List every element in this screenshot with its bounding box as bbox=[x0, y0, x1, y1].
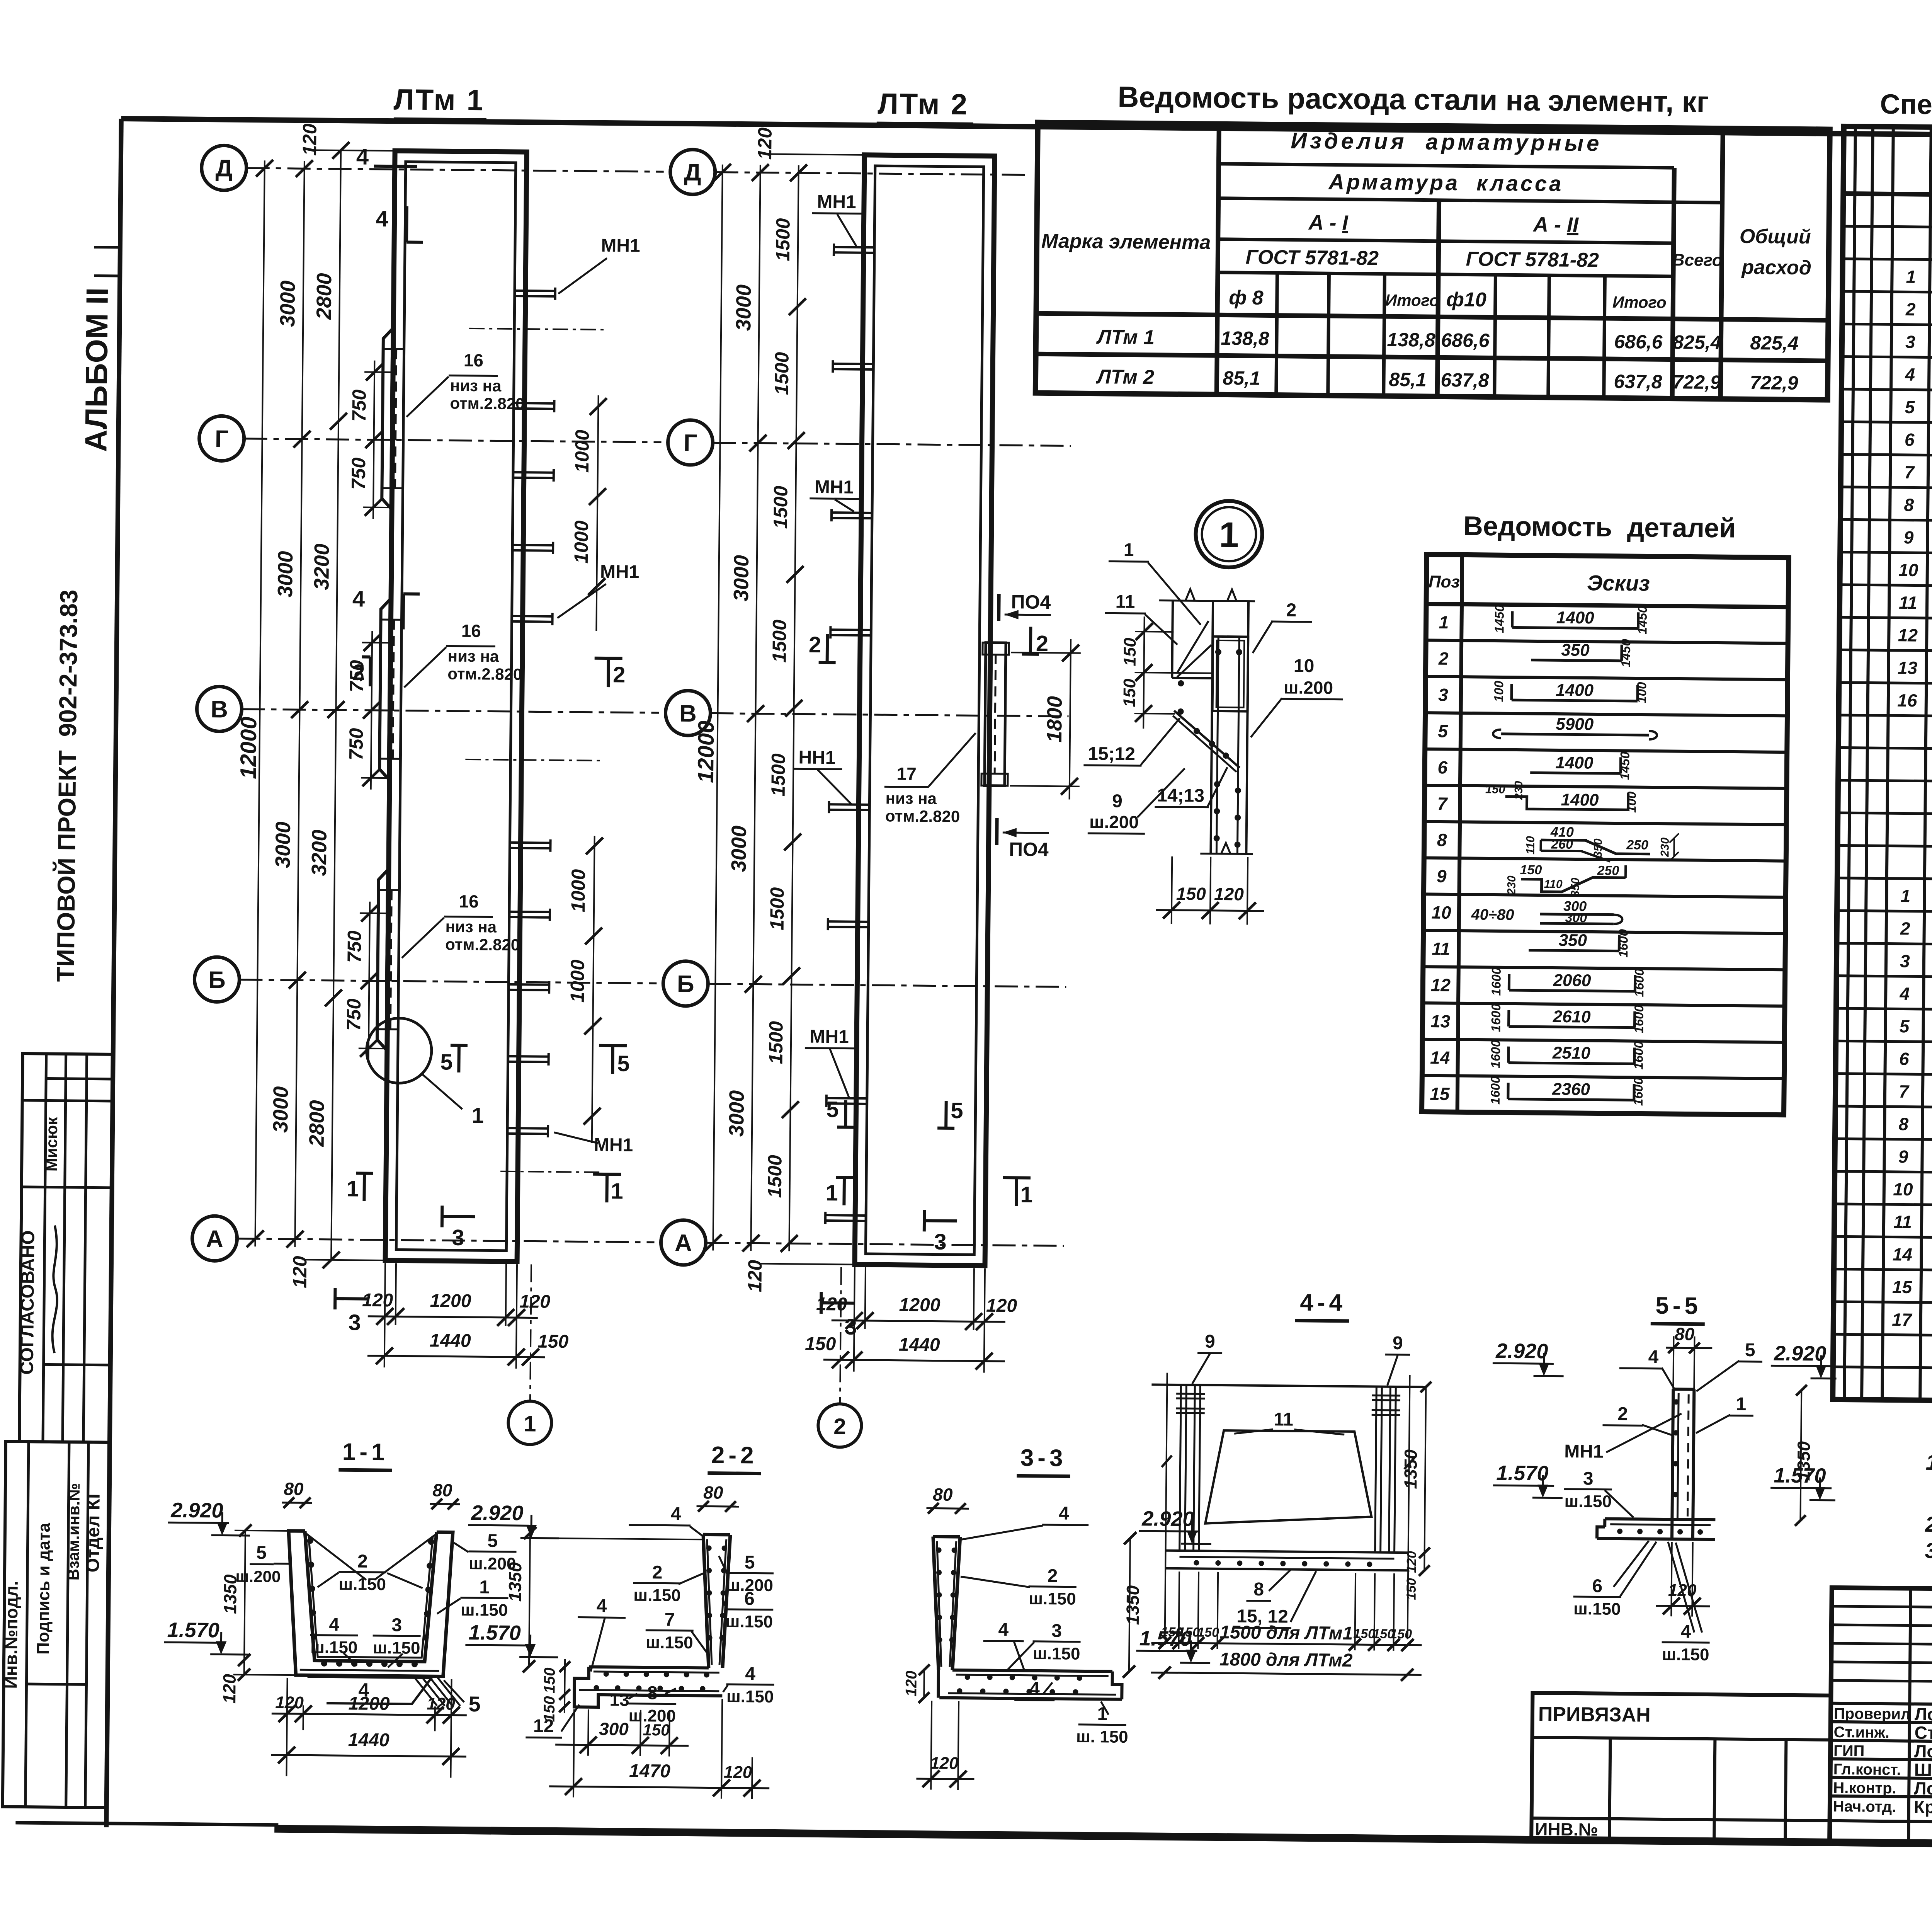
ЛТм2 bottom dimensions bbox=[854, 1267, 855, 1372]
svg-text:1500 для ЛТм1: 1500 для ЛТм1 bbox=[1219, 1622, 1353, 1644]
svg-text:низ на: низ на bbox=[445, 917, 497, 936]
svg-text:3000: 3000 bbox=[271, 821, 295, 868]
detail 1 wall lines bbox=[1172, 601, 1173, 678]
section 3-3 dims bbox=[923, 1670, 925, 1697]
svg-text:150: 150 bbox=[805, 1334, 836, 1355]
svg-text:Лоуцкер: Лоуцкер bbox=[1914, 1778, 1932, 1799]
svg-text:3200: 3200 bbox=[308, 829, 331, 876]
svg-text:85,1: 85,1 bbox=[1223, 367, 1260, 389]
svg-text:350: 350 bbox=[1561, 640, 1590, 660]
svg-text:85,1: 85,1 bbox=[1389, 369, 1427, 391]
svg-text:1600: 1600 bbox=[1632, 968, 1646, 997]
svg-text:3: 3 bbox=[1905, 332, 1915, 352]
svg-text:8: 8 bbox=[1253, 1579, 1264, 1600]
detail 1 bottom dimensions 150 120 bbox=[1172, 856, 1172, 924]
axis Г bbox=[199, 416, 244, 461]
section 3-3 bottom dim 120 bbox=[931, 1701, 932, 1790]
svg-text:ш.200: ш.200 bbox=[1284, 677, 1333, 698]
svg-text:2.920: 2.920 bbox=[1141, 1507, 1194, 1531]
svg-text:5: 5 bbox=[1438, 721, 1448, 741]
svg-text:А: А bbox=[675, 1230, 692, 1256]
svg-text:120: 120 bbox=[362, 1290, 393, 1311]
section 2-2 left rotated dims bbox=[565, 1659, 565, 1713]
ЛТм1 dimension chain 3000x4 bbox=[295, 161, 304, 1247]
svg-text:150: 150 bbox=[1390, 1627, 1412, 1641]
svg-text:Отдел КГ: Отдел КГ bbox=[83, 1488, 104, 1572]
svg-text:1. Защитный слой бетона - 20: 1. Защитный слой бетона - 20 мм. bbox=[1925, 1450, 1932, 1478]
svg-text:1450: 1450 bbox=[1617, 751, 1632, 780]
ЛТм1 body outline bbox=[385, 151, 527, 1262]
svg-text:Всего: Всего bbox=[1672, 250, 1723, 270]
steel consumption table grid bbox=[1036, 123, 1830, 400]
svg-text:Лоуцкер: Лоуцкер bbox=[1915, 1704, 1932, 1725]
svg-text:2060: 2060 bbox=[1553, 971, 1591, 990]
svg-text:1600: 1600 bbox=[1489, 967, 1503, 996]
title block privyazan box bbox=[1531, 1693, 1831, 1842]
svg-text:5: 5 bbox=[256, 1543, 267, 1563]
svg-text:1450: 1450 bbox=[1635, 606, 1650, 634]
svg-text:ЛТм 2: ЛТм 2 bbox=[878, 87, 969, 121]
detail 1 left 150 dimensions bbox=[1143, 616, 1145, 729]
svg-text:АЛЬБОМ II: АЛЬБОМ II bbox=[78, 287, 114, 452]
svg-text:5: 5 bbox=[1905, 397, 1915, 417]
svg-text:3: 3 bbox=[1900, 951, 1910, 971]
svg-text:11: 11 bbox=[1893, 1212, 1912, 1232]
svg-text:5: 5 bbox=[1900, 1016, 1910, 1036]
svg-text:отм.2.820: отм.2.820 bbox=[447, 664, 522, 683]
svg-text:Гл.конст.: Гл.конст. bbox=[1833, 1761, 1901, 1779]
svg-text:2360: 2360 bbox=[1552, 1080, 1590, 1099]
svg-text:1000: 1000 bbox=[570, 520, 592, 564]
svg-text:120: 120 bbox=[816, 1294, 847, 1315]
ЛТм2 body outline bbox=[855, 155, 995, 1266]
svg-text:низ на: низ на bbox=[448, 647, 500, 665]
svg-text:1200: 1200 bbox=[430, 1291, 472, 1311]
axis circle 1 bottom bbox=[530, 1264, 531, 1401]
svg-text:120: 120 bbox=[1404, 1551, 1419, 1573]
svg-text:Общий: Общий bbox=[1740, 225, 1811, 249]
svg-text:80: 80 bbox=[703, 1482, 723, 1502]
svg-text:Д: Д bbox=[215, 155, 233, 182]
svg-text:110: 110 bbox=[1524, 836, 1537, 855]
svg-text:А: А bbox=[206, 1226, 223, 1252]
svg-text:3000: 3000 bbox=[274, 551, 297, 598]
svg-text:120: 120 bbox=[744, 1260, 766, 1292]
svg-text:825,4: 825,4 bbox=[1673, 331, 1721, 353]
svg-text:120: 120 bbox=[299, 123, 321, 156]
svg-text:17: 17 bbox=[896, 764, 917, 784]
svg-text:ГОСТ 5781-82: ГОСТ 5781-82 bbox=[1245, 246, 1379, 269]
svg-text:150: 150 bbox=[643, 1721, 670, 1739]
ЛТм1 dimension chain 2800/3200 bbox=[331, 150, 341, 1260]
svg-text:НН1: НН1 bbox=[798, 747, 835, 768]
svg-text:5900: 5900 bbox=[1556, 715, 1594, 734]
svg-text:низ на: низ на bbox=[885, 789, 937, 807]
svg-text:Поз: Поз bbox=[1429, 572, 1460, 592]
svg-text:3000: 3000 bbox=[269, 1086, 293, 1133]
axis Б bbox=[663, 961, 708, 1006]
svg-text:1600: 1600 bbox=[1631, 1077, 1646, 1106]
svg-text:расход: расход bbox=[1741, 256, 1811, 279]
svg-text:2: 2 bbox=[652, 1562, 662, 1583]
svg-text:3: 3 bbox=[348, 1310, 361, 1335]
detail 1 closure pocket bbox=[1213, 637, 1248, 712]
svg-text:2610: 2610 bbox=[1553, 1007, 1591, 1027]
svg-text:150: 150 bbox=[1353, 1626, 1375, 1641]
ЛТм2 dimension chain 3000x4 bbox=[751, 165, 760, 1251]
svg-text:5: 5 bbox=[1745, 1340, 1755, 1360]
svg-text:ф 8: ф 8 bbox=[1229, 286, 1264, 309]
svg-text:11: 11 bbox=[1432, 938, 1450, 959]
svg-text:1500: 1500 bbox=[765, 1021, 787, 1064]
svg-text:120: 120 bbox=[275, 1693, 304, 1713]
ЛТм1 right side 1000 dimensions upper bbox=[596, 395, 598, 631]
svg-text:МН1: МН1 bbox=[594, 1135, 633, 1156]
svg-text:120: 120 bbox=[986, 1296, 1017, 1316]
svg-text:1200: 1200 bbox=[899, 1295, 941, 1316]
svg-text:5: 5 bbox=[745, 1552, 755, 1573]
svg-text:14: 14 bbox=[1893, 1244, 1913, 1264]
svg-text:5: 5 bbox=[617, 1051, 630, 1076]
detail 1 rebar dots bbox=[1178, 680, 1184, 686]
svg-text:12000: 12000 bbox=[693, 720, 719, 783]
svg-text:7: 7 bbox=[1899, 1081, 1910, 1102]
svg-text:2: 2 bbox=[1617, 1404, 1628, 1424]
svg-text:150: 150 bbox=[1485, 782, 1505, 796]
svg-text:ш.200: ш.200 bbox=[1089, 812, 1139, 832]
svg-text:8: 8 bbox=[1437, 830, 1447, 850]
svg-text:2: 2 bbox=[1286, 600, 1296, 620]
section 4-4 right rotated dims bbox=[1424, 1387, 1426, 1571]
svg-text:3-3: 3-3 bbox=[1020, 1444, 1067, 1471]
svg-text:5: 5 bbox=[951, 1098, 963, 1123]
svg-text:1350: 1350 bbox=[505, 1562, 525, 1602]
svg-text:4: 4 bbox=[998, 1619, 1009, 1640]
svg-text:722,9: 722,9 bbox=[1750, 372, 1798, 394]
svg-text:МН1: МН1 bbox=[815, 477, 854, 498]
section 3-3 floor bbox=[952, 1670, 1112, 1672]
svg-text:1500: 1500 bbox=[772, 218, 794, 261]
svg-text:ш.200: ш.200 bbox=[235, 1567, 281, 1586]
svg-text:4-4: 4-4 bbox=[1300, 1289, 1346, 1316]
svg-text:9: 9 bbox=[1205, 1331, 1215, 1352]
svg-text:ш.150: ш.150 bbox=[338, 1575, 386, 1594]
svg-text:902-2-373.83: 902-2-373.83 bbox=[54, 589, 83, 737]
svg-text:3: 3 bbox=[452, 1225, 464, 1250]
svg-text:100: 100 bbox=[1492, 681, 1506, 702]
svg-text:2.920: 2.920 bbox=[170, 1498, 223, 1522]
axis А bbox=[661, 1220, 706, 1265]
svg-text:120: 120 bbox=[427, 1694, 455, 1714]
svg-text:3: 3 bbox=[391, 1615, 402, 1635]
svg-text:3000: 3000 bbox=[727, 826, 751, 872]
svg-text:6: 6 bbox=[1437, 757, 1447, 777]
svg-text:7: 7 bbox=[1437, 793, 1448, 814]
approval stamp lower block bbox=[3, 1442, 110, 1808]
svg-text:300: 300 bbox=[599, 1719, 629, 1739]
svg-text:80: 80 bbox=[1675, 1324, 1695, 1344]
section 5-5 floor bbox=[1605, 1519, 1715, 1520]
svg-text:250: 250 bbox=[1597, 863, 1619, 878]
svg-text:150: 150 bbox=[541, 1696, 558, 1722]
title block centre column grid bbox=[1830, 1588, 1932, 1845]
svg-text:ш.150: ш.150 bbox=[1033, 1644, 1080, 1663]
svg-text:260: 260 bbox=[1551, 837, 1573, 852]
svg-text:Б: Б bbox=[677, 971, 694, 998]
section 3-3 wall bbox=[932, 1537, 940, 1670]
svg-text:4: 4 bbox=[329, 1614, 339, 1635]
svg-text:120: 120 bbox=[1668, 1581, 1697, 1600]
svg-text:6: 6 bbox=[1899, 1049, 1909, 1069]
svg-text:Б: Б bbox=[208, 967, 226, 993]
svg-text:2.920: 2.920 bbox=[1495, 1339, 1548, 1363]
svg-text:80: 80 bbox=[432, 1480, 452, 1500]
svg-text:А - II: А - II bbox=[1532, 213, 1579, 237]
svg-text:722,9: 722,9 bbox=[1672, 371, 1721, 393]
svg-text:1.570: 1.570 bbox=[167, 1618, 219, 1642]
svg-text:1500: 1500 bbox=[771, 352, 793, 395]
svg-text:5: 5 bbox=[440, 1049, 453, 1074]
axis А bbox=[192, 1216, 237, 1261]
svg-text:9: 9 bbox=[1898, 1146, 1908, 1166]
svg-text:120: 120 bbox=[724, 1763, 752, 1782]
svg-text:1000: 1000 bbox=[566, 959, 588, 1003]
detail circle 1 callout bbox=[1196, 501, 1262, 567]
svg-text:1.570: 1.570 bbox=[1774, 1464, 1826, 1487]
svg-text:750: 750 bbox=[345, 728, 367, 760]
section 2-2 floor bbox=[574, 1667, 723, 1708]
svg-text:Н.контр.: Н.контр. bbox=[1833, 1779, 1896, 1797]
svg-text:5: 5 bbox=[468, 1692, 481, 1716]
svg-text:250: 250 bbox=[1626, 838, 1648, 853]
svg-text:1: 1 bbox=[346, 1176, 359, 1201]
svg-text:1000: 1000 bbox=[571, 429, 593, 473]
svg-text:ш.150: ш.150 bbox=[310, 1638, 358, 1657]
svg-text:12: 12 bbox=[1431, 975, 1451, 995]
svg-text:150: 150 bbox=[1178, 1625, 1200, 1640]
svg-text:ш.150: ш.150 bbox=[1029, 1589, 1076, 1609]
svg-text:1440: 1440 bbox=[348, 1730, 390, 1750]
svg-text:10: 10 bbox=[1893, 1179, 1913, 1199]
svg-text:8: 8 bbox=[1904, 495, 1914, 515]
section 4-4 right wall bbox=[1375, 1387, 1377, 1553]
svg-text:16: 16 bbox=[464, 350, 484, 370]
svg-text:1-1: 1-1 bbox=[342, 1439, 389, 1466]
svg-text:1: 1 bbox=[1736, 1394, 1746, 1415]
svg-text:3000: 3000 bbox=[730, 555, 753, 602]
svg-text:686,6: 686,6 bbox=[1614, 331, 1663, 353]
svg-text:8: 8 bbox=[647, 1683, 658, 1703]
svg-text:СОГЛАСОВАНО: СОГЛАСОВАНО bbox=[17, 1230, 38, 1375]
svg-text:Нач.отд.: Нач.отд. bbox=[1833, 1798, 1896, 1815]
svg-text:1: 1 bbox=[1219, 515, 1239, 555]
svg-text:40÷80: 40÷80 bbox=[1471, 906, 1514, 923]
svg-text:1: 1 bbox=[1097, 1704, 1107, 1724]
svg-text:138,8: 138,8 bbox=[1387, 329, 1435, 351]
svg-text:3: 3 bbox=[1438, 684, 1448, 705]
svg-text:Изделия арматурные: Изделия арматурные bbox=[1291, 128, 1602, 156]
svg-text:4: 4 bbox=[352, 586, 365, 611]
svg-text:150: 150 bbox=[1121, 637, 1140, 666]
svg-text:637,8: 637,8 bbox=[1440, 369, 1489, 391]
svg-text:150: 150 bbox=[1197, 1625, 1219, 1640]
svg-text:13: 13 bbox=[1430, 1011, 1451, 1031]
svg-text:ш.150: ш.150 bbox=[1573, 1599, 1621, 1619]
svg-text:1600: 1600 bbox=[1631, 1005, 1646, 1033]
section 1-1 outline bbox=[287, 1531, 453, 1677]
svg-text:825,4: 825,4 bbox=[1750, 332, 1799, 354]
svg-text:2: 2 bbox=[809, 632, 821, 657]
svg-text:120: 120 bbox=[903, 1670, 920, 1696]
axis Д bbox=[670, 149, 715, 194]
svg-text:1: 1 bbox=[479, 1577, 490, 1597]
dimension 1800 for ПО4 bbox=[1070, 639, 1071, 800]
svg-text:2510: 2510 bbox=[1552, 1044, 1591, 1063]
svg-text:2: 2 bbox=[613, 662, 626, 687]
svg-text:14;13: 14;13 bbox=[1157, 785, 1204, 806]
svg-text:ЛТм 2: ЛТм 2 bbox=[1095, 366, 1155, 388]
svg-text:1400: 1400 bbox=[1556, 608, 1595, 627]
svg-text:2800: 2800 bbox=[312, 273, 336, 320]
svg-text:ш.150: ш.150 bbox=[373, 1638, 420, 1658]
axis В bbox=[197, 686, 242, 732]
svg-text:3200: 3200 bbox=[310, 543, 333, 590]
svg-text:686,6: 686,6 bbox=[1441, 329, 1490, 351]
svg-text:1600: 1600 bbox=[1488, 1003, 1503, 1032]
section 4-4 floor bbox=[1166, 1551, 1408, 1553]
svg-text:9: 9 bbox=[1904, 527, 1914, 547]
svg-text:150: 150 bbox=[1120, 678, 1139, 707]
svg-text:1400: 1400 bbox=[1556, 681, 1594, 700]
svg-text:ш.150: ш.150 bbox=[633, 1586, 681, 1605]
svg-text:Г: Г bbox=[684, 430, 697, 456]
svg-text:6: 6 bbox=[744, 1588, 755, 1609]
svg-text:Марка элемента: Марка элемента bbox=[1041, 230, 1211, 254]
section 1-1 spoil below bbox=[307, 1677, 432, 1704]
svg-text:ГОСТ 5781-82: ГОСТ 5781-82 bbox=[1466, 248, 1599, 271]
svg-text:1450: 1450 bbox=[1492, 604, 1507, 633]
svg-text:1: 1 bbox=[1439, 612, 1449, 632]
svg-text:Ст.инж.: Ст.инж. bbox=[1833, 1724, 1889, 1741]
svg-text:Ведомость деталей: Ведомость деталей bbox=[1463, 511, 1736, 543]
svg-text:2.920: 2.920 bbox=[471, 1501, 524, 1525]
sheet frame bbox=[121, 119, 1932, 141]
svg-text:2: 2 bbox=[352, 660, 365, 685]
svg-text:8: 8 bbox=[1898, 1114, 1908, 1134]
svg-text:ГИП: ГИП bbox=[1833, 1742, 1865, 1760]
svg-text:10: 10 bbox=[1294, 656, 1315, 676]
svg-text:4: 4 bbox=[1899, 984, 1910, 1004]
svg-text:1500: 1500 bbox=[767, 753, 789, 797]
svg-text:14: 14 bbox=[1430, 1047, 1450, 1068]
svg-text:1: 1 bbox=[1906, 267, 1916, 287]
svg-text:230: 230 bbox=[1505, 875, 1518, 896]
svg-text:3000: 3000 bbox=[725, 1090, 748, 1137]
svg-text:350: 350 bbox=[1569, 877, 1582, 897]
svg-text:4: 4 bbox=[1905, 364, 1915, 385]
parts list grid bbox=[1422, 555, 1789, 1115]
svg-text:138,8: 138,8 bbox=[1221, 327, 1269, 349]
svg-text:отм.2.820: отм.2.820 bbox=[885, 807, 960, 826]
svg-text:Подпись и дата: Подпись и дата bbox=[34, 1522, 54, 1655]
section 1-1 bottom dims bbox=[286, 1678, 287, 1776]
svg-text:Инв.№подл.: Инв.№подл. bbox=[0, 1581, 21, 1689]
svg-text:МН1: МН1 bbox=[1564, 1441, 1604, 1462]
svg-text:Ведомость расхода стали на эле: Ведомость расхода стали на элемент, кг bbox=[1117, 81, 1709, 119]
svg-text:ПО4: ПО4 bbox=[1009, 838, 1049, 860]
svg-text:отм.2.820: отм.2.820 bbox=[450, 394, 524, 413]
svg-text:7: 7 bbox=[664, 1609, 675, 1630]
detail 1 haunch bbox=[1173, 711, 1240, 768]
svg-text:1500: 1500 bbox=[764, 1155, 786, 1198]
svg-text:ш. 150: ш. 150 bbox=[1076, 1727, 1128, 1747]
axis circle 2 bottom bbox=[840, 1267, 841, 1404]
svg-text:16: 16 bbox=[1897, 690, 1917, 710]
svg-text:3000: 3000 bbox=[276, 280, 299, 327]
svg-text:5-5: 5-5 bbox=[1655, 1292, 1702, 1319]
svg-text:4: 4 bbox=[597, 1596, 607, 1616]
svg-text:1800 для ЛТм2: 1800 для ЛТм2 bbox=[1219, 1649, 1353, 1671]
svg-text:750: 750 bbox=[344, 930, 366, 963]
svg-text:5: 5 bbox=[826, 1097, 839, 1122]
svg-text:Проверил: Проверил bbox=[1834, 1705, 1911, 1723]
svg-text:150: 150 bbox=[1520, 863, 1542, 877]
svg-text:4: 4 bbox=[671, 1504, 681, 1524]
ЛТм1 closure pockets on left wall bbox=[382, 328, 393, 509]
svg-text:ПО4: ПО4 bbox=[1011, 591, 1051, 613]
svg-text:1350: 1350 bbox=[1400, 1449, 1421, 1489]
svg-text:ш.150: ш.150 bbox=[1662, 1645, 1709, 1664]
svg-text:150: 150 bbox=[1404, 1578, 1419, 1600]
svg-text:4: 4 bbox=[376, 206, 388, 232]
svg-text:2: 2 bbox=[1047, 1566, 1058, 1586]
svg-text:1400: 1400 bbox=[1555, 753, 1594, 773]
svg-text:80: 80 bbox=[933, 1485, 953, 1505]
svg-text:120: 120 bbox=[1214, 884, 1244, 904]
svg-text:80: 80 bbox=[284, 1479, 304, 1499]
svg-text:2.920: 2.920 bbox=[1774, 1342, 1827, 1365]
svg-text:1: 1 bbox=[1900, 886, 1910, 906]
svg-text:1400: 1400 bbox=[1561, 790, 1599, 810]
svg-text:1: 1 bbox=[825, 1180, 838, 1205]
svg-text:1: 1 bbox=[611, 1178, 623, 1204]
svg-text:4: 4 bbox=[745, 1663, 755, 1684]
axis Б bbox=[194, 957, 240, 1002]
section 2-2 bottom dims bbox=[588, 1709, 588, 1756]
svg-text:16: 16 bbox=[459, 891, 479, 911]
svg-text:Итого: Итого bbox=[1612, 293, 1667, 312]
svg-text:1: 1 bbox=[1124, 540, 1134, 560]
specification table grid bbox=[1833, 126, 1932, 1407]
svg-text:3: 3 bbox=[1051, 1621, 1062, 1641]
svg-text:2-2: 2-2 bbox=[711, 1442, 758, 1469]
svg-text:ТИПОВОЙ ПРОЕКТ: ТИПОВОЙ ПРОЕКТ bbox=[51, 750, 81, 982]
svg-text:6: 6 bbox=[1592, 1576, 1602, 1596]
section 1-1 chamfer lines bbox=[306, 1534, 367, 1580]
section 2-2 wall bbox=[702, 1534, 710, 1668]
svg-text:1500: 1500 bbox=[766, 887, 788, 930]
svg-text:230: 230 bbox=[1513, 781, 1525, 800]
svg-text:11: 11 bbox=[1115, 592, 1135, 612]
svg-text:1440: 1440 bbox=[899, 1335, 940, 1355]
ЛТм1 bottom dimensions bbox=[384, 1263, 385, 1367]
svg-text:1600: 1600 bbox=[1488, 1040, 1503, 1068]
svg-text:120: 120 bbox=[930, 1754, 959, 1773]
svg-text:120: 120 bbox=[219, 1674, 240, 1704]
svg-text:Д: Д bbox=[684, 159, 701, 186]
svg-text:100: 100 bbox=[1624, 791, 1638, 813]
svg-text:300: 300 bbox=[1565, 911, 1587, 925]
